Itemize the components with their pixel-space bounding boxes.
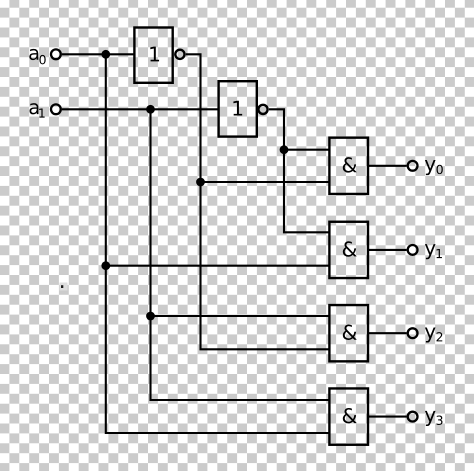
output bubble U1 [175, 50, 184, 59]
wire not-a1 down to U4 AND input [284, 150, 329, 233]
AND gate U4 [329, 222, 368, 278]
junction a1 branch [146, 105, 155, 114]
output terminal y1 [408, 245, 418, 255]
wire not-a1 to U3 AND input [284, 149, 329, 151]
inverter U1 [134, 28, 172, 83]
wire a1 down to U6 AND input [151, 316, 330, 400]
stray speck artifact [60, 283, 68, 291]
wire U3 output to y0 [368, 165, 407, 167]
wire a1 vertical branch [149, 109, 151, 316]
wire U2 inverter output down [269, 109, 284, 149]
input terminal a0 [51, 49, 61, 59]
wire U1 inverter output down [186, 54, 201, 182]
wire a0 input horizontal [62, 53, 134, 55]
AND gate U3 [329, 138, 368, 194]
junction a1 to U5 [146, 312, 155, 321]
label y1 [425, 244, 442, 259]
label y2 [425, 327, 442, 342]
wire a1 input horizontal [62, 108, 219, 110]
label a0 [29, 49, 45, 64]
inverter U2 [219, 81, 257, 136]
wire a0 to U4 AND input [106, 265, 330, 267]
label a1 [30, 103, 45, 117]
output terminal y3 [408, 412, 418, 422]
wire a1 to U5 AND input [151, 315, 330, 317]
junction a0 to U4 [101, 261, 110, 270]
wire not-a0 down to U5 AND input [201, 182, 330, 349]
junction not-a0 to U3 [196, 178, 205, 187]
label y0 [425, 160, 443, 175]
AND gate U6 [329, 388, 368, 444]
junction not-a1 to U3 [280, 145, 289, 154]
AND gate U5 [329, 305, 368, 361]
junction a0 branch [101, 50, 110, 59]
wire not-a0 to U3 AND input [201, 181, 330, 183]
wire U4 output to y1 [368, 249, 407, 251]
input terminal a1 [51, 104, 61, 114]
wire U5 output to y2 [368, 332, 407, 334]
wire U6 output to y3 [368, 416, 407, 418]
output terminal y0 [408, 161, 418, 171]
output terminal y2 [408, 328, 418, 338]
wire a0 vertical branch [105, 54, 107, 265]
wire a0 down to U6 AND input [106, 266, 330, 433]
label y3 [425, 411, 443, 426]
output bubble U2 [258, 105, 267, 114]
